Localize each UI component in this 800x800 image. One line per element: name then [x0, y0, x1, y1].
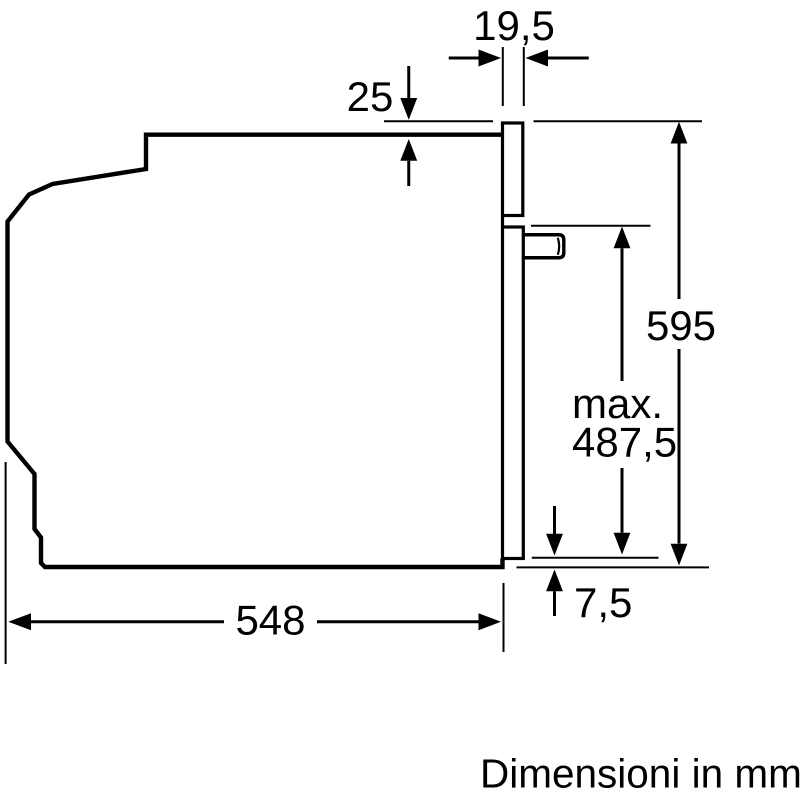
niche top reference line right segment: [534, 120, 703, 122]
19,5 dimension right line and arrow: [526, 50, 549, 67]
7,5 dimension up arrow: [546, 570, 563, 592]
oven body outline: [8, 135, 504, 567]
oven bottom reference line: [517, 566, 710, 568]
door handle: [523, 235, 564, 258]
548 dimension left extension line: [5, 462, 7, 664]
svg-text:Dimensioni in mm: Dimensioni in mm: [480, 751, 800, 797]
svg-text:7,5: 7,5: [574, 579, 632, 626]
19,5 dimension left line and arrow: [449, 57, 479, 60]
max 487,5 top reference line: [531, 225, 651, 227]
svg-text:19,5: 19,5: [473, 2, 555, 49]
svg-text:25: 25: [347, 73, 394, 120]
max 487,5 dimension down arrow: [621, 468, 624, 533]
niche top reference line left segment: [384, 120, 493, 122]
25 dimension down arrow: [407, 66, 410, 100]
548 dimension right line and arrow: [317, 620, 479, 623]
548 dimension left arrow and line: [8, 613, 31, 630]
control fascia (top front frame): [503, 123, 523, 216]
25 dimension up arrow: [400, 139, 417, 161]
door bottom reference line: [532, 557, 659, 559]
548 dimension right extension line: [503, 583, 505, 652]
7,5 dimension down arrow: [553, 506, 556, 534]
595 dimension down arrow: [678, 349, 681, 544]
max 487,5 dimension up arrow: [614, 227, 631, 249]
19,5 dimension left extension line: [502, 47, 504, 106]
19,5 dimension right extension line: [523, 47, 525, 106]
oven door panel: [503, 227, 524, 559]
handle inner detail line: [558, 238, 559, 255]
svg-text:548: 548: [235, 597, 305, 644]
svg-text:487,5: 487,5: [572, 419, 677, 466]
fascia-to-door left edge segment: [501, 216, 504, 228]
595 dimension up arrow: [671, 122, 688, 144]
svg-text:595: 595: [646, 302, 716, 349]
